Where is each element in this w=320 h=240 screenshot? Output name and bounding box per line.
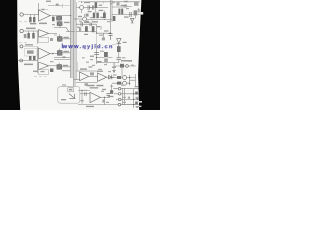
- label above U4A: [80, 68, 87, 69]
- capacitor C3: [88, 5, 89, 10]
- wire bottom bus: [78, 104, 138, 106]
- op-amp U3B: [39, 62, 49, 70]
- label above U4A2: [88, 66, 92, 67]
- resistor R1: [30, 15, 32, 18]
- value labels cluster bottom: [62, 84, 126, 103]
- terminal T1: [119, 98, 122, 101]
- op-amp U3A: [39, 48, 50, 59]
- wire row feed: [114, 66, 136, 76]
- watermark scanlines: [79, 44, 112, 47]
- diode D1: [117, 39, 121, 44]
- trimmer RP3: [57, 50, 62, 55]
- wire Q1 emitter: [81, 10, 83, 13]
- resistor R4: [95, 2, 98, 8]
- label above top rail: [46, 1, 51, 2]
- wire input 3: [23, 45, 39, 47]
- wire U5 out: [100, 96, 110, 98]
- wire RP3: [54, 49, 71, 58]
- label near C3: [88, 11, 92, 12]
- label row text left: [30, 23, 36, 24]
- wire T1: [116, 99, 139, 101]
- label RP3: [63, 51, 68, 52]
- input jack J4: [20, 59, 23, 62]
- wire node B: [37, 31, 39, 44]
- label corner: [135, 86, 139, 87]
- junction PA: [81, 90, 82, 91]
- label D5: [124, 16, 129, 17]
- label mid col: [97, 61, 102, 62]
- capacitor C10: [90, 22, 92, 26]
- junction U5: [104, 97, 105, 98]
- wire top feed right: [114, 63, 125, 105]
- tick top x103: [102, 1, 104, 4]
- value labels cluster top mid: [52, 2, 129, 36]
- resistor R13: [50, 38, 53, 41]
- label Q2 under: [86, 21, 89, 22]
- resistor R2: [33, 15, 35, 18]
- scan notch right wire: [141, 12, 144, 15]
- transistor Q2: [83, 17, 87, 21]
- zobel inside: [69, 94, 75, 99]
- capacitor C7: [134, 1, 139, 6]
- wire node A: [38, 3, 40, 15]
- transistor Q1: [80, 6, 84, 10]
- capacitor C11: [80, 27, 81, 31]
- ground top-right: [137, 8, 140, 12]
- label OUT: [109, 96, 113, 97]
- wire Q3 Q4: [112, 78, 136, 84]
- trimmer RP1b: [57, 21, 63, 26]
- wire node C: [97, 24, 111, 33]
- label row4b: [97, 26, 101, 27]
- label row3: [84, 22, 89, 23]
- wire top right: [112, 14, 141, 16]
- diode D2: [109, 75, 112, 80]
- wire U3B out: [49, 65, 57, 67]
- label right cluster: [112, 67, 116, 68]
- bus bundle left: [71, 0, 73, 78]
- junction Q dots: [129, 77, 130, 78]
- label row4c: [84, 34, 88, 35]
- wire stub trimmer: [134, 15, 136, 18]
- capacitor C14: [94, 53, 99, 55]
- junction T: [133, 99, 134, 100]
- input jack J2: [20, 29, 23, 32]
- capacitor C9: [81, 22, 82, 26]
- label above node C: [104, 30, 108, 31]
- trimmer RP2: [57, 36, 62, 41]
- label top right: [121, 5, 127, 6]
- wire U4B out: [107, 76, 114, 78]
- junction dots extra: [81, 1, 82, 2]
- resistor R22: [90, 72, 94, 75]
- preset box inside: [68, 88, 74, 92]
- capacitor C25: [85, 83, 88, 86]
- wire mid vertical: [96, 44, 98, 64]
- label R5 R6: [92, 21, 98, 22]
- value labels cluster mid: [50, 51, 134, 76]
- transistor Q3: [123, 76, 127, 80]
- op-amp U1B: [39, 30, 49, 38]
- wire RP5: [54, 60, 71, 71]
- op-amp U4A: [80, 72, 89, 81]
- label above J3: [25, 44, 33, 45]
- wire RP2: [54, 34, 70, 39]
- label mid col2: [90, 56, 94, 57]
- label top right2: [110, 3, 112, 4]
- resistor R15: [92, 26, 95, 32]
- capacitor C16: [85, 92, 86, 96]
- capacitor C23: [63, 56, 66, 58]
- label top row1: [78, 16, 82, 17]
- relay coil: [124, 4, 127, 7]
- resistor R20: [104, 52, 108, 57]
- wire collector bus: [130, 74, 136, 86]
- label R4: [99, 10, 104, 11]
- wire U4A out: [89, 75, 98, 77]
- wire D1 cathode: [117, 44, 121, 47]
- scan border left: [0, 0, 20, 110]
- wire stub R9: [119, 13, 122, 15]
- label TDA2030 line2: [90, 87, 99, 88]
- label R7: [100, 17, 105, 18]
- wire C13 down: [113, 60, 119, 63]
- wire mid rows: [97, 58, 113, 63]
- scan notch bottom right: [139, 101, 142, 103]
- resistor R9: [118, 9, 120, 15]
- label in U3B box: [41, 71, 45, 72]
- wire bass row bottom: [76, 82, 98, 84]
- diode D5: [130, 18, 134, 21]
- label right: [121, 60, 132, 62]
- label near B+: [102, 89, 106, 90]
- resistor R16: [117, 46, 121, 52]
- dashes under J1: [19, 22, 31, 43]
- watermark tick: [62, 43, 63, 48]
- resistor R27: [113, 16, 116, 21]
- wire R16 down: [118, 52, 120, 57]
- wire U1B out: [49, 32, 57, 34]
- wire Q2 base: [75, 18, 83, 20]
- label RP5: [63, 65, 68, 66]
- capacitor C4: [92, 5, 93, 9]
- capacitor C15: [104, 58, 108, 62]
- resistor R6: [96, 13, 98, 19]
- capacitor C2: [56, 4, 59, 6]
- network box U1B: [39, 37, 49, 42]
- wire U5 down: [103, 97, 105, 104]
- wire T3: [114, 93, 139, 95]
- pilot lamp: [126, 65, 129, 68]
- wire into D1: [112, 44, 117, 46]
- wire mid row: [66, 31, 75, 33]
- wire RP1: [54, 26, 69, 32]
- label left of R11: [24, 34, 27, 38]
- resistor R24: [117, 82, 121, 85]
- transistor Q4: [123, 81, 127, 85]
- resistor R23: [117, 76, 121, 79]
- capacitor C20: [102, 100, 105, 103]
- resistor R11: [28, 31, 30, 33]
- label row4a: [77, 27, 79, 28]
- wire right column: [113, 63, 115, 70]
- speaker box: [58, 87, 80, 104]
- resistor R14: [85, 26, 88, 31]
- label left edge mid: [33, 71, 38, 72]
- resistor R17: [29, 56, 32, 60]
- label row text mid: [39, 23, 47, 25]
- wire T link: [133, 89, 135, 108]
- junction U3A: [52, 53, 53, 54]
- stub below node C: [103, 33, 105, 37]
- wire row2: [87, 19, 112, 21]
- capacitor C5: [86, 14, 89, 17]
- capacitor C17: [106, 94, 110, 98]
- ground PA: [80, 101, 83, 103]
- capacitor C18: [128, 97, 129, 99]
- op-amp U1A: [39, 10, 50, 21]
- label preset: [69, 89, 73, 91]
- wire input 2: [23, 30, 38, 32]
- resistor R7: [103, 13, 106, 19]
- label under J4: [24, 64, 33, 66]
- wire B+ stub: [110, 84, 113, 90]
- label TDA2030: [87, 85, 95, 87]
- wire U1A output: [50, 15, 71, 17]
- wire bundle turn: [74, 79, 81, 81]
- wire Q2 stub: [84, 14, 86, 17]
- resistor R25: [135, 92, 138, 95]
- wire stub x78: [77, 62, 79, 71]
- fuse block B+: [110, 90, 113, 94]
- label near R4 top: [99, 5, 102, 6]
- tick C3 stub: [89, 10, 92, 22]
- wire T2: [121, 104, 139, 106]
- dashes under U3B: [34, 76, 46, 78]
- wire node D: [37, 47, 39, 73]
- label C8: [26, 28, 36, 30]
- resistor R21: [120, 64, 124, 68]
- junction mid: [96, 57, 97, 58]
- capacitor C22: [102, 37, 105, 40]
- label C7: [124, 1, 128, 2]
- capacitor C12: [109, 33, 113, 40]
- label RP2: [63, 37, 68, 38]
- resistor R5: [93, 13, 95, 19]
- page background: [0, 0, 160, 110]
- label U2: [27, 50, 34, 53]
- capacitor C21: [100, 26, 101, 30]
- junction dots row4: [96, 33, 97, 34]
- wire input 4: [18, 60, 39, 62]
- input jack J3: [20, 45, 23, 48]
- bus pair right: [111, 0, 113, 33]
- input jack J1: [20, 13, 23, 16]
- ticks mid right: [105, 61, 109, 65]
- wire row4: [76, 31, 97, 33]
- wire row2 stub: [103, 11, 105, 13]
- label right of D1: [123, 42, 127, 43]
- wire bass row top: [76, 70, 98, 72]
- trimmer RP1: [56, 16, 62, 21]
- scan border right: [138, 0, 160, 110]
- resistor R26: [135, 102, 138, 105]
- IC block U2: [24, 48, 37, 56]
- resistor R19: [50, 68, 53, 72]
- wire mid link faint: [96, 33, 98, 50]
- label TDA2030b: [96, 85, 103, 87]
- capacitor C24: [117, 2, 120, 5]
- wire T0: [113, 88, 139, 90]
- network box U3B: [39, 70, 49, 75]
- ground corner: [136, 106, 139, 107]
- capacitor C1: [42, 9, 45, 10]
- capacitor C19: [136, 97, 139, 100]
- op-amp U4B: [98, 73, 107, 81]
- wire row3: [76, 23, 97, 25]
- capacitor C6: [130, 12, 131, 17]
- wire V+ rail: [76, 6, 132, 9]
- ground D5: [131, 22, 134, 23]
- wire stub R4: [95, 8, 97, 13]
- label Q1: [84, 2, 90, 3]
- trimmer RP5: [57, 64, 62, 69]
- trimmer RP4: [134, 10, 138, 15]
- label above U4B: [97, 71, 103, 72]
- wire input left: [23, 14, 38, 16]
- resistor R3: [52, 17, 55, 22]
- wire PA input: [78, 90, 90, 100]
- wire U3A out: [50, 53, 57, 55]
- label inside box: [61, 99, 66, 100]
- resistor R10: [121, 9, 123, 15]
- resistor R18: [33, 56, 36, 60]
- ground mid-right: [112, 70, 115, 72]
- wire feedback: [48, 4, 63, 8]
- label RP1: [64, 22, 70, 23]
- terminal T0: [118, 87, 121, 90]
- terminal T2: [118, 103, 121, 106]
- label below PA: [86, 106, 94, 107]
- capacitor C13: [116, 58, 121, 60]
- terminal T3: [118, 93, 121, 96]
- top rail wire: [88, 1, 140, 3]
- resistor R12: [32, 31, 34, 33]
- junction row dots: [90, 7, 91, 8]
- power amp U5: [90, 92, 100, 102]
